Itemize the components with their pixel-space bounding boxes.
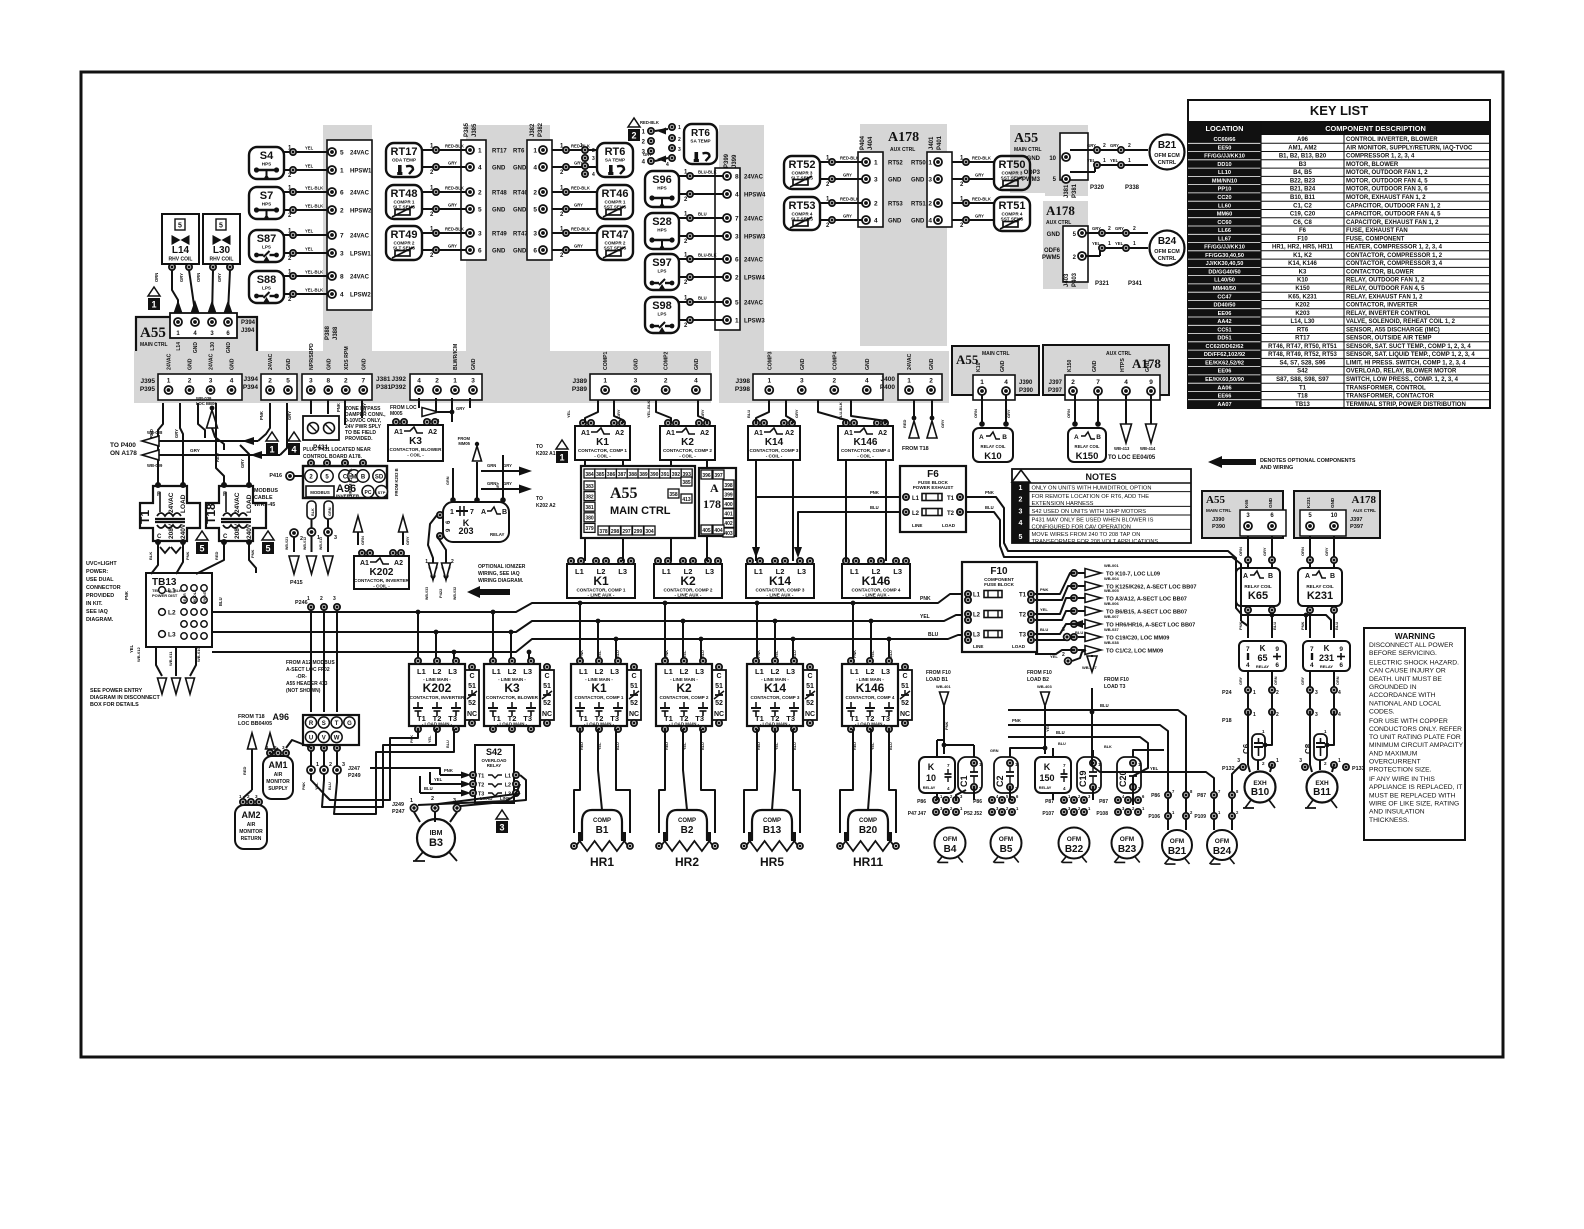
svg-text:FF/GG30,40,50: FF/GG30,40,50 (1205, 253, 1244, 259)
svg-text:RT53: RT53 (888, 202, 903, 208)
sensor RT47 (552, 226, 633, 260)
svg-text:RT17: RT17 (492, 149, 507, 155)
svg-text:P399: P399 (724, 153, 730, 168)
svg-text:T: T (335, 721, 339, 727)
svg-text:LPS: LPS (658, 312, 667, 317)
svg-text:4: 4 (592, 172, 595, 178)
svg-text:GRY: GRY (1262, 547, 1267, 556)
pressure switch S28 (645, 212, 766, 250)
svg-text:POWER EXHAUST: POWER EXHAUST (913, 485, 954, 490)
svg-text:YEL: YEL (598, 742, 602, 750)
svg-text:RELAY COIL: RELAY COIL (1075, 444, 1100, 449)
svg-text:BLK: BLK (148, 552, 153, 560)
svg-text:A1: A1 (581, 430, 590, 437)
fan motor B23 (1112, 828, 1143, 863)
svg-text:382: 382 (585, 494, 594, 500)
svg-text:SEE IAQ: SEE IAQ (86, 609, 108, 615)
svg-text:MM/NN10: MM/NN10 (1212, 178, 1237, 184)
svg-text:4: 4 (928, 218, 932, 225)
svg-text:COMP: COMP (678, 818, 696, 824)
svg-text:RED: RED (580, 742, 584, 750)
svg-text:S96: S96 (652, 174, 672, 186)
svg-text:RELAY COIL: RELAY COIL (1244, 584, 1272, 589)
svg-text:K14: K14 (765, 437, 784, 448)
svg-text:240V: 240V (180, 523, 187, 539)
svg-text:LOAD: LOAD (1012, 644, 1026, 649)
svg-text:GRN: GRN (487, 463, 496, 468)
svg-text:7: 7 (1063, 763, 1066, 768)
svg-text:FOR REMOTE LOCATION OF RT6, AD: FOR REMOTE LOCATION OF RT6, ADD THE (1032, 494, 1150, 500)
svg-text:GND: GND (1330, 497, 1335, 508)
svg-text:B21: B21 (1168, 846, 1187, 857)
svg-text:HR5: HR5 (760, 855, 784, 869)
svg-text:L1: L1 (754, 567, 763, 576)
svg-text:L1: L1 (664, 667, 673, 676)
svg-text:SEE POWER ENTRY: SEE POWER ENTRY (90, 688, 143, 694)
fan motor B21 (1162, 830, 1192, 864)
svg-text:WB-013: WB-013 (319, 537, 323, 550)
svg-text:K1: K1 (591, 681, 607, 695)
svg-text:HPSW2: HPSW2 (350, 209, 372, 215)
svg-text:52: 52 (630, 700, 638, 707)
svg-text:F10: F10 (990, 566, 1008, 577)
svg-text:DD/FF62,102/92: DD/FF62,102/92 (1204, 352, 1245, 358)
svg-text:P106: P106 (1148, 814, 1160, 820)
svg-text:150: 150 (1039, 773, 1054, 783)
svg-text:M005: M005 (390, 411, 403, 417)
svg-text:B24: B24 (1158, 236, 1177, 247)
svg-text:S4: S4 (260, 150, 274, 162)
svg-text:SENSOR, OUTSIDE AIR TEMP: SENSOR, OUTSIDE AIR TEMP (1346, 336, 1431, 342)
note power entry (90, 688, 160, 708)
svg-text:YEL: YEL (1115, 241, 1124, 246)
svg-text:1: 1 (307, 596, 310, 602)
tags from T18 (238, 714, 275, 790)
svg-text:GND: GND (326, 358, 332, 370)
svg-text:MOTOR, OUTDOOR FAN 3, 6: MOTOR, OUTDOOR FAN 3, 6 (1346, 187, 1428, 193)
svg-text:YEL: YEL (598, 650, 602, 658)
svg-text:BLU: BLU (328, 782, 332, 790)
svg-text:L1: L1 (912, 496, 920, 502)
svg-text:403: 403 (724, 531, 733, 537)
svg-text:K2: K2 (676, 681, 692, 695)
svg-text:GRY: GRY (616, 409, 621, 418)
svg-text:P108: P108 (1096, 811, 1108, 817)
svg-text:B1: B1 (596, 825, 609, 836)
wires P246 to A96 (295, 596, 361, 790)
svg-text:3: 3 (678, 147, 681, 153)
svg-text:CNTRL: CNTRL (1158, 256, 1177, 262)
svg-text:385: 385 (682, 480, 691, 486)
svg-text:GRY: GRY (1115, 226, 1124, 231)
svg-text:4: 4 (1019, 520, 1023, 527)
svg-text:LL10: LL10 (1218, 170, 1231, 176)
svg-text:NC: NC (714, 711, 724, 718)
svg-text:BLU: BLU (701, 742, 705, 750)
svg-text:RT51: RT51 (911, 202, 926, 208)
svg-text:K146: K146 (862, 574, 891, 588)
svg-text:397: 397 (714, 473, 723, 479)
svg-text:P395: P395 (140, 386, 156, 393)
svg-text:P394: P394 (241, 320, 256, 326)
svg-text:LOAD: LOAD (180, 494, 187, 513)
svg-text:MAIN CTRL: MAIN CTRL (982, 351, 1010, 357)
svg-text:BLU: BLU (1075, 630, 1083, 635)
svg-text:AND WIRING: AND WIRING (1260, 465, 1293, 471)
svg-text:2: 2 (1108, 226, 1111, 232)
svg-text:1: 1 (1108, 241, 1111, 247)
svg-text:51: 51 (630, 683, 638, 690)
control board A55 main ctrl (581, 466, 695, 538)
svg-text:AA06: AA06 (1217, 385, 1231, 391)
svg-text:RT6: RT6 (691, 128, 710, 139)
svg-text:VALVE, SOLENOID, REHEAT COIL 1: VALVE, SOLENOID, REHEAT COIL 1, 2 (1346, 319, 1456, 325)
svg-text:A1: A1 (666, 430, 675, 437)
pressure switch S88 (249, 270, 371, 304)
wires transformers up (149, 403, 249, 485)
svg-text:- COIL -: - COIL - (679, 454, 696, 459)
svg-text:S88: S88 (257, 274, 277, 286)
svg-text:MOTOR, OUTDOOR FAN 4, 5: MOTOR, OUTDOOR FAN 4, 5 (1346, 178, 1428, 184)
svg-text:L1: L1 (505, 774, 511, 780)
svg-text:2: 2 (1262, 761, 1265, 766)
svg-text:TO C1/C2, LOC MM09: TO C1/C2, LOC MM09 (1106, 649, 1163, 655)
svg-text:3: 3 (1237, 758, 1240, 764)
contactor aux K2 (654, 558, 722, 598)
svg-text:B13: B13 (763, 825, 782, 836)
svg-text:1: 1 (1098, 762, 1101, 767)
svg-text:MAIN CTRL: MAIN CTRL (1014, 147, 1042, 153)
svg-text:COMPONENT DESCRIPTION: COMPONENT DESCRIPTION (1325, 124, 1426, 133)
svg-text:2: 2 (874, 201, 878, 208)
svg-text:CC62/DD62/62: CC62/DD62/62 (1206, 344, 1244, 350)
wires fan cluster mid (1053, 742, 1164, 805)
svg-text:EE/KK60,50/90: EE/KK60,50/90 (1205, 377, 1244, 383)
svg-text:JJ/KK30,40,50: JJ/KK30,40,50 (1206, 261, 1244, 267)
svg-text:HEATER, COMPRESSOR 1, 2, 3, 4: HEATER, COMPRESSOR 1, 2, 3, 4 (1346, 245, 1443, 251)
svg-text:FROM K203 B: FROM K203 B (394, 468, 399, 496)
svg-text:RELAY: RELAY (1320, 664, 1334, 669)
svg-text:A55: A55 (1014, 131, 1038, 146)
svg-text:4: 4 (1338, 712, 1341, 718)
relay coil K231 (1298, 568, 1342, 606)
svg-text:WB-007: WB-007 (1104, 614, 1119, 619)
svg-text:COMP3: COMP3 (767, 351, 773, 370)
svg-text:4: 4 (1004, 379, 1008, 386)
svg-text:SENSOR, SAT. LIQUID TEMP., COM: SENSOR, SAT. LIQUID TEMP., COMP 1, 2, 3,… (1346, 352, 1475, 358)
svg-text:A2: A2 (878, 430, 887, 437)
svg-text:2: 2 (431, 796, 434, 802)
svg-text:2: 2 (1128, 143, 1131, 149)
svg-text:4: 4 (1310, 662, 1314, 669)
svg-text:GND: GND (193, 342, 199, 354)
fan motor B5 (991, 828, 1022, 863)
svg-text:YEL: YEL (305, 247, 314, 252)
svg-text:L2: L2 (771, 667, 780, 676)
note optional ionizer (467, 564, 526, 598)
svg-text:YEL: YEL (305, 229, 314, 234)
svg-text:1: 1 (1338, 758, 1341, 764)
svg-text:F10: F10 (1297, 236, 1308, 242)
svg-text:RELAY: RELAY (490, 532, 505, 537)
svg-text:PWM3: PWM3 (1022, 177, 1041, 183)
overload relay S42 (470, 745, 519, 803)
svg-text:1: 1 (1262, 729, 1265, 734)
svg-text:- COIL -: - COIL - (594, 454, 611, 459)
svg-text:GND: GND (1268, 497, 1273, 508)
svg-text:FROM F10: FROM F10 (1027, 670, 1052, 676)
svg-text:K1, K2: K1, K2 (1293, 253, 1312, 259)
air monitor AM2 (235, 794, 267, 849)
svg-text:RT52: RT52 (888, 161, 903, 167)
svg-text:4: 4 (1246, 662, 1250, 669)
svg-text:389: 389 (639, 472, 648, 478)
svg-text:5: 5 (219, 223, 223, 230)
wires transformers down (148, 542, 256, 574)
relay contacts K231 (1303, 641, 1350, 671)
svg-text:K3: K3 (409, 436, 422, 447)
svg-text:YEL: YEL (129, 644, 134, 653)
svg-text:C: C (716, 673, 721, 680)
svg-text:YEL: YEL (566, 410, 571, 418)
svg-text:W/RJ-45: W/RJ-45 (254, 502, 275, 508)
svg-text:LOAD B1: LOAD B1 (926, 677, 948, 683)
svg-text:WB-012: WB-012 (136, 647, 141, 662)
svg-text:B21, B24: B21, B24 (1290, 187, 1316, 193)
svg-text:5: 5 (478, 207, 482, 214)
svg-text:GRN: GRN (446, 476, 450, 485)
svg-text:6: 6 (1339, 662, 1343, 669)
svg-text:FROM T18: FROM T18 (238, 714, 265, 720)
svg-text:PNK: PNK (920, 596, 931, 602)
svg-text:1: 1 (1019, 485, 1023, 492)
legend denotes optional (1208, 456, 1356, 471)
svg-text:BLU: BLU (746, 410, 751, 418)
svg-text:COMP4: COMP4 (832, 351, 838, 370)
svg-text:1: 1 (1103, 158, 1106, 164)
note uvc light power (86, 561, 121, 623)
svg-text:BLU: BLU (218, 597, 223, 606)
svg-text:GND: GND (471, 358, 477, 370)
svg-text:GND: GND (513, 249, 527, 255)
svg-text:387: 387 (618, 472, 627, 478)
svg-text:P397: P397 (1350, 524, 1363, 530)
tag WB-039 (196, 396, 224, 450)
svg-text:B4, B5: B4, B5 (1293, 170, 1312, 176)
svg-text:K150: K150 (1076, 451, 1099, 462)
svg-text:A2: A2 (785, 430, 794, 437)
svg-text:PNK: PNK (944, 721, 949, 730)
svg-text:L1: L1 (575, 567, 584, 576)
svg-text:GRN: GRN (360, 536, 365, 545)
svg-text:WB-008: WB-008 (147, 430, 163, 435)
svg-text:FOR USE WITH COPPER: FOR USE WITH COPPER (1369, 718, 1448, 725)
svg-text:GRY: GRY (405, 536, 410, 545)
wires F10 to arrows (1035, 563, 1196, 655)
svg-text:RED: RED (853, 742, 857, 750)
svg-text:YEL: YEL (1050, 654, 1058, 659)
svg-text:K14: K14 (764, 681, 786, 695)
svg-text:P133: P133 (1352, 766, 1365, 772)
slab B mid labels (492, 149, 528, 255)
svg-text:A2: A2 (700, 430, 709, 437)
svg-text:REAR: REAR (183, 593, 187, 604)
svg-text:RT6: RT6 (605, 146, 626, 158)
wires AM1/AM2 (243, 740, 310, 798)
svg-text:GRY: GRY (179, 273, 184, 282)
svg-text:2: 2 (631, 131, 636, 141)
slab D mid labels (888, 161, 926, 225)
svg-text:PNK: PNK (250, 549, 255, 558)
svg-text:DD10: DD10 (1217, 162, 1231, 168)
svg-text:COMP: COMP (763, 818, 781, 824)
svg-text:GRY: GRY (190, 448, 200, 453)
svg-text:OFM ECM: OFM ECM (1154, 153, 1180, 159)
svg-text:C19, C20: C19, C20 (1290, 212, 1316, 218)
A55 box top-right (1010, 125, 1088, 196)
svg-text:1: 1 (1253, 690, 1256, 696)
svg-text:GND: GND (492, 208, 506, 214)
svg-text:AA42: AA42 (1217, 319, 1231, 325)
svg-text:K231: K231 (1307, 590, 1333, 602)
svg-text:GND: GND (230, 358, 236, 370)
svg-text:24VAC: 24VAC (209, 353, 215, 370)
svg-text:5: 5 (533, 207, 537, 214)
svg-text:4: 4 (1063, 786, 1066, 791)
svg-text:A96: A96 (272, 712, 289, 722)
svg-text:2: 2 (678, 137, 681, 143)
svg-text:3: 3 (334, 535, 337, 541)
svg-text:2: 2 (478, 190, 482, 197)
svg-text:RT17: RT17 (391, 146, 418, 158)
svg-text:WB-006: WB-006 (1104, 601, 1119, 606)
svg-text:J247: J247 (348, 766, 360, 772)
key list table (1188, 100, 1490, 408)
slab A pin box (327, 140, 372, 310)
svg-text:P320: P320 (1090, 185, 1105, 191)
hazard 1 near K1 coil (556, 440, 568, 463)
pressure switch S7 (249, 186, 372, 220)
svg-text:C: C (544, 673, 549, 680)
svg-text:J394: J394 (244, 376, 259, 383)
svg-text:BLU-BLK: BLU-BLK (698, 170, 717, 175)
svg-text:AIR: AIR (247, 822, 256, 828)
svg-text:ORN: ORN (154, 273, 159, 282)
svg-text:RT48, RT49, RT52, RT53: RT48, RT49, RT52, RT53 (1268, 352, 1337, 358)
svg-text:10: 10 (926, 773, 936, 783)
svg-text:9: 9 (1149, 379, 1153, 386)
contactor coil K146 (838, 420, 893, 460)
svg-text:52: 52 (468, 700, 476, 707)
svg-text:J388: J388 (333, 326, 339, 340)
svg-text:LOAD B2: LOAD B2 (1027, 677, 1049, 683)
note zone bypass (345, 406, 386, 442)
svg-text:XDS RPM: XDS RPM (344, 346, 350, 370)
svg-text:HPS: HPS (262, 202, 271, 207)
svg-text:4: 4 (694, 378, 698, 385)
svg-text:GRY: GRY (843, 173, 852, 178)
svg-text:CAN CAUSE INJURY OR: CAN CAUSE INJURY OR (1369, 668, 1446, 675)
svg-text:4: 4 (865, 378, 869, 385)
svg-text:COMP1: COMP1 (603, 351, 609, 370)
svg-text:YEL: YEL (871, 742, 875, 750)
svg-text:FROM F10: FROM F10 (1104, 677, 1129, 683)
pressure switch S97 (645, 253, 765, 291)
svg-text:ACCORDANCE WITH: ACCORDANCE WITH (1369, 692, 1436, 699)
svg-text:4: 4 (947, 786, 950, 791)
svg-text:G: G (347, 721, 352, 727)
svg-text:LPSW1: LPSW1 (350, 252, 371, 258)
svg-text:J249: J249 (392, 802, 404, 808)
svg-text:2: 2 (340, 208, 344, 215)
svg-text:405: 405 (702, 528, 711, 534)
svg-text:2: 2 (320, 596, 323, 602)
svg-text:2: 2 (832, 378, 836, 385)
svg-text:K146: K146 (854, 437, 878, 448)
svg-text:DD40/50: DD40/50 (1213, 303, 1235, 309)
svg-text:PNK: PNK (410, 735, 414, 743)
svg-text:T1: T1 (947, 496, 955, 502)
svg-text:208V: 208V (234, 523, 241, 539)
svg-text:WB-012: WB-012 (303, 537, 307, 550)
svg-text:U: U (309, 736, 313, 742)
svg-text:CONTACTOR, COMP 3: CONTACTOR, COMP 3 (750, 695, 799, 700)
svg-text:NC: NC (467, 711, 477, 718)
svg-text:NC: NC (542, 711, 552, 718)
svg-text:P321: P321 (1095, 281, 1110, 287)
svg-text:TERMINAL STRIP, POWER DISTRIBU: TERMINAL STRIP, POWER DISTRIBUTION (1346, 402, 1466, 408)
svg-text:MONITOR: MONITOR (239, 829, 263, 835)
wires to S42 (370, 768, 471, 797)
svg-text:S4, S7, S28, S96: S4, S7, S28, S96 (1279, 360, 1326, 366)
svg-text:FROM T18: FROM T18 (902, 446, 929, 452)
svg-text:BLU: BLU (985, 505, 994, 510)
blower motor B3 (413, 819, 457, 861)
fan motor B24 (1207, 830, 1237, 864)
main gray band 1 (134, 351, 711, 403)
tag from F10 load B2 (1027, 670, 1052, 754)
svg-text:CC20: CC20 (1217, 195, 1231, 201)
svg-text:BLU: BLU (1056, 730, 1065, 735)
svg-text:FRONT: FRONT (203, 590, 207, 604)
svg-text:GRY: GRY (1239, 676, 1243, 685)
svg-text:ONLY ON UNITS WITH HUMIDITROL: ONLY ON UNITS WITH HUMIDITROL OPTION (1032, 486, 1152, 492)
svg-text:402: 402 (724, 521, 733, 527)
svg-text:378: 378 (599, 529, 608, 535)
slab B right pin box (J382 P382) (527, 122, 552, 260)
capacitor C1 (958, 757, 982, 793)
svg-text:CONTACTOR, BLOWER: CONTACTOR, BLOWER (1346, 269, 1414, 275)
svg-text:398: 398 (724, 483, 733, 489)
svg-text:ORN: ORN (1274, 676, 1278, 685)
svg-text:400: 400 (724, 502, 733, 508)
svg-text:GRY: GRY (1110, 143, 1119, 148)
svg-text:RT49: RT49 (391, 229, 418, 241)
svg-text:LL66: LL66 (1218, 228, 1231, 234)
hazard 5 T1 (196, 531, 208, 554)
svg-text:A96: A96 (1297, 137, 1309, 143)
svg-text:P47 J47: P47 J47 (908, 811, 926, 817)
svg-text:YEL-BLK: YEL-BLK (646, 401, 651, 418)
A55 band segment J390 (952, 346, 1039, 395)
relay coil K10 (top) (973, 395, 1013, 462)
svg-text:LOC BB06: LOC BB06 (196, 401, 217, 406)
svg-text:A1: A1 (360, 560, 369, 567)
svg-text:1: 1 (478, 148, 482, 155)
svg-text:-OR-: -OR- (296, 674, 307, 680)
svg-text:51: 51 (806, 683, 814, 690)
svg-text:NPR/SBPD: NPR/SBPD (309, 343, 315, 370)
